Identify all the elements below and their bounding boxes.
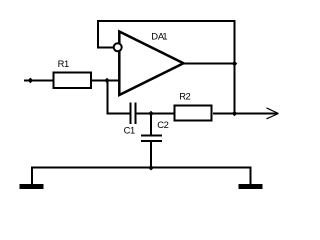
svg-text:C1: C1 <box>124 125 135 136</box>
svg-text:R2: R2 <box>179 91 190 102</box>
svg-text:R1: R1 <box>58 58 69 69</box>
svg-text:1: 1 <box>162 31 167 42</box>
svg-text:C2: C2 <box>157 119 168 130</box>
